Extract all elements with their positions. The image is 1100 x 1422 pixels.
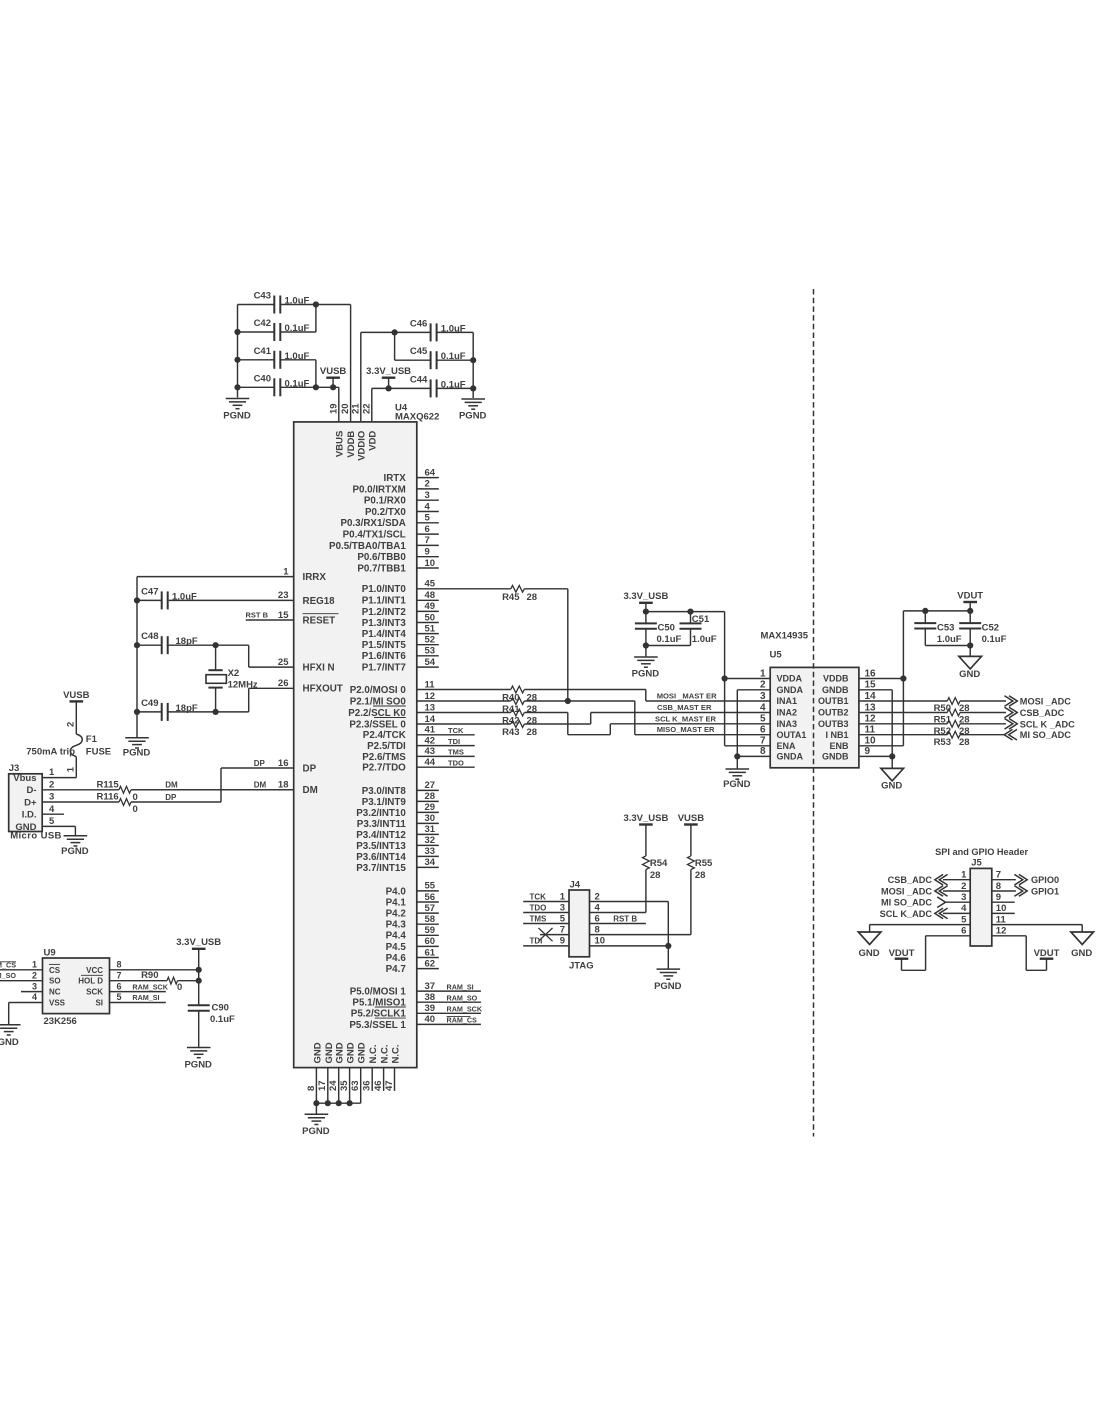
svg-text:28: 28 (650, 870, 661, 881)
svg-text:TDI: TDI (530, 937, 543, 946)
svg-text:2: 2 (425, 479, 430, 490)
pin 10 (J4) to ground (590, 936, 672, 949)
power VDUT at C52 (957, 590, 983, 611)
svg-text:2: 2 (595, 891, 600, 902)
svg-text:P1.4/INT4: P1.4/INT4 (362, 629, 407, 640)
pin 30 P3.3/INT11 (U4) (357, 813, 439, 830)
ground GND left of J5 (858, 932, 881, 959)
svg-text:GND: GND (15, 822, 36, 833)
pin 8 (J5), net GPIO1 (992, 881, 1059, 897)
ground GND right of J5 (1071, 932, 1094, 959)
pin 4 INA2 (U5 left) (760, 702, 797, 717)
svg-text:C41: C41 (254, 346, 272, 357)
capacitor C45 (392, 329, 477, 369)
capacitor C49 (137, 688, 249, 721)
svg-text:11: 11 (865, 725, 876, 736)
svg-text:P3.6/INT14: P3.6/INT14 (356, 852, 406, 863)
pin 55 P4.0 (U4) (386, 881, 439, 898)
wire MOSI_MASTER net (524, 690, 770, 702)
svg-text:8: 8 (760, 746, 766, 757)
svg-text:C51: C51 (692, 614, 710, 625)
ground PGND below J4 (654, 969, 682, 992)
svg-text:26: 26 (278, 678, 289, 689)
resistor R43 28 (502, 721, 537, 738)
svg-text:N.C.: N.C. (380, 1045, 391, 1064)
svg-text:PGND: PGND (184, 1060, 212, 1071)
connector J3 Micro USB body (9, 763, 62, 841)
svg-text:RAM_SI: RAM_SI (447, 982, 474, 991)
svg-text:23K256: 23K256 (44, 1016, 77, 1027)
svg-text:45: 45 (425, 579, 436, 590)
svg-text:OUTB3: OUTB3 (818, 719, 849, 729)
resistor R52 28 (934, 720, 970, 737)
svg-text:OUTA1: OUTA1 (777, 730, 807, 740)
svg-text:U9: U9 (44, 947, 56, 958)
svg-text:VCC: VCC (86, 966, 103, 975)
svg-text:GPIO0: GPIO0 (1031, 875, 1059, 885)
pin 21 VDDIO (U4 top) (350, 403, 367, 461)
svg-text:I.D.: I.D. (22, 810, 37, 821)
svg-text:SPI and GPIO Header: SPI and GPIO Header (935, 847, 1028, 857)
pin 48 P1.1/INT1 (U4) (362, 590, 439, 607)
svg-text:2: 2 (961, 881, 966, 892)
svg-text:14: 14 (425, 714, 436, 725)
svg-text:P2.6/TMS: P2.6/TMS (362, 752, 406, 763)
svg-text:P1.0/INT0: P1.0/INT0 (362, 584, 407, 595)
svg-text:SCK: SCK (86, 988, 103, 997)
pin 16 DP (U4), net DP (221, 758, 317, 775)
pin 10 ENB (U5 right) (829, 736, 876, 751)
svg-text:C47: C47 (141, 586, 158, 597)
svg-text:7: 7 (117, 970, 122, 980)
svg-text:52: 52 (425, 635, 436, 646)
pin 40 P5.3/SSEL 1 (U4), net RAM_CS (349, 1014, 481, 1031)
svg-text:34: 34 (425, 857, 436, 868)
svg-text:750mA trip: 750mA trip (26, 747, 75, 758)
pin 8 GND (U4 bottom) (306, 1042, 324, 1103)
pin 57 P4.2 (U4) (386, 903, 439, 920)
svg-text:R115: R115 (97, 779, 120, 790)
svg-text:P5.0/MOSI 1: P5.0/MOSI 1 (350, 987, 407, 998)
svg-text:25: 25 (278, 657, 289, 668)
svg-text:10: 10 (425, 558, 436, 569)
wire MOSI_ADC net (859, 700, 947, 702)
pin 1 IRRX (U4) (137, 566, 326, 583)
svg-text:P4.1: P4.1 (386, 897, 407, 908)
svg-text:6: 6 (595, 913, 600, 924)
svg-text:0.1uF: 0.1uF (657, 634, 682, 645)
pin 25 HFXIN (U4) (249, 657, 335, 674)
svg-text:GPIO1: GPIO1 (1031, 887, 1059, 897)
svg-text:19: 19 (328, 403, 339, 414)
pin 3 D+ (J3) (24, 792, 119, 809)
pin 4 (J5), net SCLK_ADC (880, 903, 971, 919)
svg-text:VUSB: VUSB (678, 813, 705, 824)
resistor R51 28 (934, 709, 970, 726)
svg-text:OUTB1: OUTB1 (818, 696, 849, 706)
svg-text:16: 16 (865, 668, 877, 679)
svg-text:P1.5/INT5: P1.5/INT5 (362, 640, 407, 651)
svg-text:39: 39 (425, 1003, 436, 1014)
pin 3 (J4), net TDO (523, 902, 569, 913)
svg-text:VSS: VSS (49, 999, 66, 1008)
wire GND bus under U4 (313, 1100, 360, 1114)
svg-text:GNDA: GNDA (777, 685, 804, 695)
svg-text:HFXI N: HFXI N (303, 663, 335, 674)
resistor R90 0 (141, 970, 202, 993)
wire C43 to pin20 column (280, 305, 350, 422)
svg-text:2: 2 (49, 779, 54, 790)
pin 5 INA3 (U5 left) (760, 714, 797, 729)
wire to off-page connector (960, 719, 1075, 730)
svg-text:7: 7 (560, 924, 565, 935)
pin 3 INA1 (U5 left) (760, 691, 797, 706)
svg-text:2: 2 (65, 722, 76, 727)
svg-text:6: 6 (425, 524, 430, 535)
pin 63 GND (U4 bottom) (350, 1042, 368, 1103)
svg-text:3: 3 (760, 691, 766, 702)
wire to off-page connector (960, 707, 1065, 718)
junction dots on left cap rail (234, 329, 240, 391)
svg-text:C44: C44 (410, 374, 428, 385)
svg-text:R45: R45 (502, 592, 520, 603)
resistor R54 28 (643, 856, 669, 913)
svg-text:P0.1/RX0: P0.1/RX0 (364, 496, 406, 507)
svg-text:6: 6 (117, 981, 122, 991)
svg-text:0.1uF: 0.1uF (982, 634, 1007, 645)
capacitor C41 (238, 346, 310, 369)
svg-text:15: 15 (865, 680, 877, 691)
svg-text:GND: GND (312, 1042, 323, 1063)
svg-text:44: 44 (425, 757, 436, 768)
svg-text:P2.5/TDI: P2.5/TDI (367, 741, 406, 752)
wire to off-page connector (960, 696, 1071, 707)
svg-text:U5: U5 (770, 650, 783, 661)
svg-text:TCK: TCK (448, 726, 464, 735)
svg-text:P3.0/INT8: P3.0/INT8 (362, 786, 407, 797)
svg-text:3.3V_USB: 3.3V_USB (366, 366, 411, 377)
ground PGND below C90 (184, 1048, 212, 1071)
svg-text:49: 49 (425, 601, 436, 612)
capacitor C50 0.1uF (635, 612, 682, 649)
svg-text:0: 0 (177, 982, 182, 993)
svg-text:P2.0/MOSI 0: P2.0/MOSI 0 (350, 685, 407, 696)
svg-text:J4: J4 (570, 879, 581, 890)
svg-text:1: 1 (49, 767, 55, 778)
pin 60 P4.5 (U4) (386, 936, 439, 953)
svg-text:SCL K_MAST ER: SCL K_MAST ER (655, 714, 717, 723)
pin 2 P0.0/IRTXM (U4) (352, 479, 438, 496)
svg-text:28: 28 (527, 716, 538, 727)
svg-text:IRRX: IRRX (303, 572, 327, 583)
svg-text:33: 33 (425, 846, 436, 857)
svg-text:1: 1 (961, 870, 967, 881)
pin 64 IRTX (U4) (383, 467, 438, 484)
svg-text:GND: GND (324, 1042, 335, 1063)
pin 14 P2.3/SSEL0 (U4) (349, 714, 510, 731)
svg-text:RAM_SO: RAM_SO (447, 993, 478, 1002)
svg-text:P4.4: P4.4 (386, 931, 407, 942)
svg-text:MAXQ622: MAXQ622 (395, 411, 439, 422)
pin 3 NC (U9) (21, 981, 61, 996)
pin 4 VSS (U9) (9, 992, 66, 1024)
svg-text:GND: GND (959, 669, 980, 680)
svg-text:3: 3 (961, 892, 966, 903)
svg-text:P0.0/IRTXM: P0.0/IRTXM (352, 484, 405, 495)
svg-text:SCL K_ADC: SCL K_ADC (880, 909, 933, 919)
svg-text:VDD: VDD (367, 431, 378, 451)
svg-text:6: 6 (961, 926, 966, 937)
svg-text:2: 2 (760, 680, 766, 691)
capacitor C42 (238, 318, 310, 341)
svg-text:CSB_ADC: CSB_ADC (888, 875, 933, 885)
svg-text:61: 61 (425, 947, 436, 958)
svg-text:P2.4/TCK: P2.4/TCK (363, 730, 406, 741)
svg-text:1: 1 (32, 960, 37, 970)
svg-text:GND: GND (357, 1042, 368, 1063)
svg-text:PGND: PGND (123, 747, 151, 758)
capacitor C51 1.0uF (646, 612, 717, 646)
pin 11 P2.0/MOSI0 (U4) (350, 679, 511, 696)
op-amp U4 MAXQ622 body (294, 403, 440, 1068)
pin 9 (J4), net TDI (523, 936, 569, 947)
svg-text:DM: DM (254, 781, 267, 790)
svg-text:C53: C53 (937, 622, 954, 633)
pin 13 OUTB2 (U5 right) (818, 702, 876, 717)
ground PGND below U5 (723, 769, 751, 790)
svg-text:3.3V_USB: 3.3V_USB (176, 937, 221, 948)
svg-text:42: 42 (425, 735, 436, 746)
svg-text:VUSB: VUSB (63, 690, 90, 701)
svg-text:HOL D: HOL D (78, 977, 103, 986)
pin 51 P1.4/INT4 (U4) (362, 623, 439, 640)
wire left rail of C40-C43 bank (237, 305, 239, 398)
svg-text:NC: NC (49, 988, 61, 997)
power 3.3V_USB at U9 (176, 937, 221, 1005)
svg-text:GND: GND (335, 1042, 346, 1063)
svg-text:OUTB2: OUTB2 (818, 708, 849, 718)
svg-text:1.0uF: 1.0uF (692, 634, 717, 645)
pin 23 REG18 (U4) (169, 590, 335, 607)
svg-text:57: 57 (425, 903, 436, 914)
svg-text:28: 28 (425, 791, 436, 802)
svg-text:VBUS: VBUS (334, 431, 345, 457)
svg-text:D-: D- (26, 785, 36, 796)
svg-text:58: 58 (425, 914, 436, 925)
svg-text:54: 54 (425, 657, 436, 668)
svg-text:TMS: TMS (530, 914, 548, 923)
svg-text:29: 29 (425, 802, 436, 813)
wire CSB_MASTER net (524, 703, 770, 724)
svg-text:PGND: PGND (61, 846, 89, 857)
svg-text:R43: R43 (502, 727, 519, 738)
svg-text:P4.5: P4.5 (386, 942, 407, 953)
svg-text:5: 5 (560, 913, 566, 924)
svg-text:VDUT: VDUT (889, 948, 915, 959)
ground PGND below IRRX rail (123, 738, 151, 759)
pin 27 P3.0/INT8 (U4) (362, 780, 439, 797)
pin 6 OUTA1 (U5 left) (760, 725, 806, 740)
pin 33 P3.6/INT14 (U4) (356, 846, 439, 863)
op-amp U5 MAX14935 body (761, 631, 859, 768)
pin 5 P0.3/RX1/SDA (U4) (340, 513, 438, 530)
svg-text:PGND: PGND (723, 779, 751, 790)
svg-text:13: 13 (425, 702, 436, 713)
svg-text:43: 43 (425, 746, 436, 757)
svg-text:12: 12 (996, 926, 1007, 937)
pin 45 P1.0/INT0 (U4) (362, 579, 511, 596)
svg-text:1: 1 (65, 766, 76, 772)
pin 2 D- (J3) (26, 779, 119, 796)
svg-text:30: 30 (425, 813, 436, 824)
pin 4 (J4) to R54 (590, 902, 646, 913)
capacitor C53 1.0uF (914, 611, 970, 646)
pin 41 P2.4/TCK (U4), net TCK (363, 725, 475, 742)
svg-text:C90: C90 (212, 1002, 229, 1013)
svg-text:D+: D+ (24, 797, 37, 808)
wire C41 right lead down to C40 net (280, 360, 319, 391)
ground GND below U9 (0, 1025, 21, 1048)
wire SCLK_MASTER net (524, 713, 770, 735)
svg-text:53: 53 (425, 646, 436, 657)
wire U5 pin10 ENB (859, 745, 904, 747)
pin 6 (J4), net RST B (590, 913, 646, 924)
svg-text:RAM_SI: RAM_SI (132, 993, 159, 1002)
power VUSB at fuse (63, 690, 90, 734)
wire pin22 column up to C44 net (372, 388, 431, 422)
capacitor C47 (137, 586, 197, 609)
svg-text:28: 28 (527, 727, 538, 738)
svg-text:C49: C49 (141, 698, 158, 709)
svg-text:CSB_MAST ER: CSB_MAST ER (657, 703, 712, 712)
svg-text:GND: GND (859, 948, 880, 959)
svg-text:63: 63 (350, 1080, 361, 1091)
svg-text:64: 64 (425, 467, 436, 478)
pin 2 (J4) to ground (590, 891, 669, 968)
svg-text:8: 8 (117, 960, 122, 970)
pin 7 (J4) no-connect X (539, 924, 570, 941)
wire U5 pin2 GNDA to pin8 (737, 690, 770, 757)
wire MISO_ADC net (859, 734, 947, 736)
svg-text:8: 8 (306, 1086, 317, 1091)
wire pin21 column up to C46 net (361, 332, 395, 422)
pin 3 (J5), net MISO_ADC (881, 892, 970, 908)
pin 5 SI (U9), net RAM_SI (95, 992, 165, 1007)
svg-text:P1.1/INT1: P1.1/INT1 (362, 596, 407, 607)
svg-text:GNDB: GNDB (822, 752, 849, 762)
pin 28 P3.1/INT9 (U4) (362, 791, 439, 808)
pin 2 GNDA (U5 left) (760, 680, 804, 695)
pin 1 Vbus (J3) (13, 767, 76, 784)
svg-text:SO: SO (49, 977, 61, 986)
svg-text:N.C.: N.C. (368, 1045, 379, 1064)
pin 49 P1.2/INT2 (U4) (362, 601, 439, 618)
svg-text:F1: F1 (86, 734, 98, 745)
ground GND below U5 right (881, 768, 904, 791)
svg-text:40: 40 (425, 1014, 436, 1025)
svg-text:PGND: PGND (654, 981, 682, 992)
pin 35 GND (U4 bottom) (339, 1042, 357, 1103)
svg-text:P2.7/TDO: P2.7/TDO (362, 763, 406, 774)
wire R45 to MISO0 net (524, 589, 571, 704)
svg-text:ENA: ENA (777, 741, 797, 751)
svg-text:VDUT: VDUT (957, 590, 983, 601)
svg-text:3: 3 (32, 981, 37, 991)
svg-text:RAM_SO: RAM_SO (0, 971, 16, 980)
svg-text:DP: DP (165, 793, 177, 802)
svg-text:P2.3/SSEL 0: P2.3/SSEL 0 (349, 719, 406, 730)
svg-text:17: 17 (317, 1080, 328, 1091)
svg-text:TDO: TDO (448, 758, 464, 767)
resistor R53 28 (934, 731, 970, 748)
pin 8 (J4) to R55 (590, 924, 691, 935)
pin 38 P5.1/MISO1 (U4), net RAM_SO (352, 992, 480, 1009)
resistor R42 28 (502, 709, 537, 726)
svg-text:GND: GND (881, 781, 902, 792)
svg-text:P4.6: P4.6 (386, 953, 407, 964)
pin 15 GNDB (U5 right) (822, 680, 876, 695)
resistor R50 28 (934, 698, 970, 715)
svg-text:5: 5 (117, 992, 122, 1002)
pin 43 P2.6/TMS (U4), net TMS (362, 746, 474, 763)
svg-text:DM: DM (165, 781, 178, 790)
svg-text:MAX14935: MAX14935 (761, 631, 809, 642)
power VDUT left under J5 (889, 948, 915, 959)
svg-text:P0.7/TBB1: P0.7/TBB1 (357, 563, 406, 574)
svg-text:CSB_ADC: CSB_ADC (1020, 708, 1065, 718)
svg-text:4: 4 (595, 902, 601, 913)
svg-text:REG18: REG18 (303, 596, 336, 607)
wire U5 pin7 ENA (725, 745, 771, 747)
pin 39 P5.2/SCLK1 (U4), net RAM_SCK (351, 1003, 483, 1020)
pin 50 P1.3/INT3 (U4) (362, 612, 439, 629)
svg-text:P3.2/INT10: P3.2/INT10 (356, 808, 406, 819)
svg-text:5: 5 (425, 513, 431, 524)
pin 4 P0.2/TX0 (U4) (365, 501, 439, 518)
svg-text:P1.3/INT3: P1.3/INT3 (362, 618, 407, 629)
svg-text:3: 3 (425, 490, 430, 501)
svg-text:51: 51 (425, 623, 436, 634)
svg-text:P3.3/INT11: P3.3/INT11 (357, 819, 407, 830)
svg-text:4: 4 (32, 992, 37, 1002)
svg-text:MI SO_ADC: MI SO_ADC (1020, 730, 1071, 740)
pin 24 GND (U4 bottom) (328, 1042, 346, 1103)
capacitor C52 0.1uF (959, 611, 1006, 649)
svg-text:0: 0 (133, 804, 138, 815)
svg-text:SCL K _ADC: SCL K _ADC (1020, 719, 1075, 729)
pin 17 GND (U4 bottom) (317, 1042, 335, 1103)
svg-text:VDDA: VDDA (777, 674, 803, 684)
svg-text:FUSE: FUSE (86, 746, 111, 757)
pin 5 (J4), net TMS (523, 913, 569, 924)
svg-text:50: 50 (425, 612, 436, 623)
svg-text:37: 37 (425, 981, 436, 992)
svg-text:RST B: RST B (613, 914, 637, 923)
pin 11 INB1 (U5 right) (825, 725, 875, 740)
pin 46 N.C. (U4 bottom) (373, 1045, 391, 1092)
svg-text:10: 10 (865, 736, 877, 747)
svg-text:22: 22 (361, 403, 372, 414)
svg-text:VDUT: VDUT (1034, 948, 1060, 959)
wire U5 pin16 VDDB rail (859, 611, 907, 746)
svg-text:DP: DP (303, 763, 317, 774)
svg-text:9: 9 (560, 936, 565, 947)
svg-text:31: 31 (425, 824, 436, 835)
svg-text:4: 4 (49, 804, 55, 815)
svg-text:55: 55 (425, 881, 436, 892)
wire C42 right lead up to C43 net (280, 301, 319, 332)
svg-text:4: 4 (961, 903, 967, 914)
